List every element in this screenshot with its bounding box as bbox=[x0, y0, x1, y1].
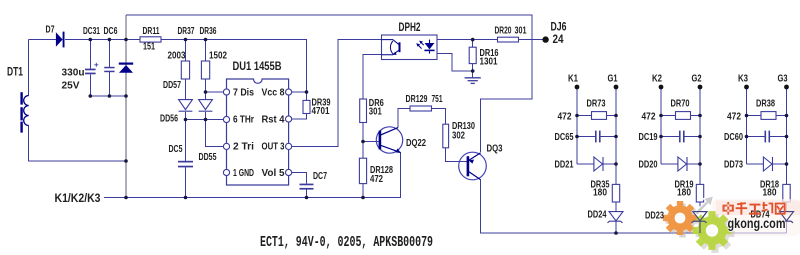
wire pin7 row bbox=[206, 91, 224, 93]
zener diode DD23 bbox=[692, 212, 708, 223]
transistor Q DQ3 bbox=[459, 152, 487, 180]
node dot THr right bbox=[204, 118, 208, 122]
wire DR39 drop to Rst bbox=[306, 92, 308, 100]
svg-text:302: 302 bbox=[452, 130, 465, 141]
wire cap row 1 bbox=[577, 136, 596, 138]
wire main rail right of DR11 to chip vcc drop bbox=[161, 40, 307, 93]
svg-text:2003: 2003 bbox=[168, 50, 186, 61]
watermark green gear shadow bbox=[696, 214, 735, 253]
zener diode on x=126 net bbox=[119, 63, 133, 73]
svg-text:Vol 5: Vol 5 bbox=[262, 168, 285, 179]
wire K2 rail bbox=[660, 89, 662, 164]
node dot DC6 bottom bbox=[108, 94, 112, 98]
wire opto emitter to DR6 bbox=[363, 55, 382, 99]
pin 6 circle bbox=[223, 116, 229, 122]
svg-text:K2: K2 bbox=[652, 74, 662, 85]
resistor DR16 bbox=[469, 47, 476, 63]
diode DD21 bbox=[594, 157, 603, 171]
svg-text:6 THr: 6 THr bbox=[233, 114, 254, 125]
svg-text:4701: 4701 bbox=[312, 106, 330, 117]
svg-text:gkong.com: gkong.com bbox=[728, 216, 786, 231]
resistor DR70 bbox=[676, 112, 691, 120]
wire main rail left bbox=[29, 39, 57, 41]
svg-text:751: 751 bbox=[432, 94, 443, 105]
wire resistor row 1 bbox=[577, 115, 592, 117]
svg-text:DC5: DC5 bbox=[169, 144, 183, 155]
svg-text:Vcc 8: Vcc 8 bbox=[262, 87, 285, 98]
node dot G3 diode row bbox=[785, 162, 789, 166]
node dot K rail zener bbox=[124, 196, 128, 200]
resistor DR130 bbox=[443, 124, 449, 148]
capacitor DC31 electrolytic bbox=[85, 63, 98, 74]
wire DR36 column bbox=[205, 40, 207, 62]
capacitor DC6 bbox=[104, 67, 114, 72]
svg-text:Rst 4: Rst 4 bbox=[262, 114, 285, 125]
diode DD73 bbox=[763, 157, 772, 171]
capacitor DC5 bbox=[178, 161, 193, 168]
svg-text:472: 472 bbox=[642, 112, 656, 123]
node dot DC7 bottom bbox=[305, 196, 309, 200]
wire K1 rail bbox=[576, 89, 578, 164]
svg-text:DQ3: DQ3 bbox=[487, 144, 503, 155]
capacitor DC65 bbox=[595, 131, 601, 143]
zener diode DD23 overlay bbox=[692, 212, 708, 233]
svg-text:330u: 330u bbox=[62, 68, 85, 79]
resistor DR39 bbox=[303, 100, 310, 113]
node dot G1 cap row bbox=[614, 135, 618, 139]
resistor DR128 bbox=[359, 158, 366, 183]
wire G1 rail bbox=[615, 89, 617, 184]
wire DC6 column bbox=[108, 40, 110, 67]
node dot G1 diode row bbox=[614, 162, 618, 166]
svg-text:DR70: DR70 bbox=[671, 99, 690, 110]
svg-text:472: 472 bbox=[370, 174, 383, 185]
node dot DR16 bottom bbox=[471, 69, 475, 73]
svg-text:K1: K1 bbox=[568, 74, 578, 85]
resistor DR36 bbox=[201, 61, 209, 79]
wire DR6 to base junction bbox=[362, 123, 364, 142]
resistor DR73 bbox=[592, 112, 607, 120]
svg-text:ECT1, 94V-0, 0205, APKSB00079: ECT1, 94V-0, 0205, APKSB00079 bbox=[260, 235, 433, 251]
optocoupler phototransistor bbox=[382, 40, 400, 55]
svg-text:DU1 1455B: DU1 1455B bbox=[233, 59, 282, 73]
wire opto LED anode to DJ6 bbox=[437, 39, 543, 41]
node dot G1 resistor row bbox=[614, 114, 618, 118]
node dot G2 resistor row bbox=[698, 114, 702, 118]
wire bottom rail K1/K2/K3 bbox=[104, 153, 401, 198]
node dot DR128 bottom bbox=[361, 196, 365, 200]
svg-text:301: 301 bbox=[515, 25, 527, 36]
diode DD55 right column bbox=[199, 100, 213, 112]
node dot G3 resistor row bbox=[785, 114, 789, 118]
node K1 column and G1 column network bbox=[577, 89, 616, 233]
svg-text:1 GND: 1 GND bbox=[233, 168, 254, 179]
node dot DR36 top bbox=[204, 38, 208, 42]
node dot DC6 top bbox=[108, 38, 112, 42]
node K3 column and G3 column network bbox=[747, 89, 787, 233]
wire G2 to bottom bbox=[699, 202, 701, 211]
wire DQ22 collector up to DR129 bbox=[398, 109, 410, 128]
wire G3 to bottom bbox=[786, 202, 788, 211]
wire DC31 column bbox=[89, 40, 91, 69]
pin 8 circle bbox=[286, 89, 292, 95]
node dot zener rail cross bbox=[124, 38, 128, 42]
optocoupler light arrows bbox=[416, 41, 424, 49]
wire G2 rail bbox=[699, 89, 701, 184]
node dot transformer return bbox=[124, 159, 128, 163]
diode D7 bbox=[56, 32, 65, 48]
resistor DR19 bbox=[696, 184, 703, 202]
wire cap row 2 bbox=[661, 136, 680, 138]
node dot K1 cap row bbox=[575, 135, 579, 139]
svg-text:G1: G1 bbox=[608, 74, 618, 85]
terminal K2 bbox=[659, 85, 664, 90]
zener diode DD74 overlay bbox=[778, 212, 794, 223]
svg-text:DD55: DD55 bbox=[199, 152, 217, 163]
wire diode row 2 bbox=[661, 163, 678, 165]
wire Tri link bbox=[206, 120, 224, 147]
optocoupler LED bbox=[424, 40, 434, 54]
svg-text:K1/K2/K3: K1/K2/K3 bbox=[55, 191, 101, 205]
svg-text:DD24: DD24 bbox=[588, 210, 607, 221]
svg-text:DD56: DD56 bbox=[160, 114, 178, 125]
svg-text:DD23: DD23 bbox=[645, 210, 664, 221]
resistor DR35 bbox=[612, 184, 619, 202]
node dot K2 resistor row bbox=[659, 114, 663, 118]
svg-text:DR36: DR36 bbox=[200, 26, 217, 37]
terminal DJ6 bbox=[542, 36, 548, 42]
svg-text:301: 301 bbox=[369, 106, 382, 117]
svg-text:DR129: DR129 bbox=[406, 94, 428, 105]
watermark chinese title 中华工控网 bbox=[723, 202, 786, 215]
wire G1 to bottom bbox=[615, 202, 617, 211]
wire G3 rail bbox=[786, 89, 788, 184]
svg-text:151: 151 bbox=[143, 42, 155, 53]
svg-text:472: 472 bbox=[558, 112, 572, 123]
zener diode DD24 bbox=[608, 212, 624, 223]
capacitor DC7 bbox=[300, 184, 314, 190]
svg-text:DD73: DD73 bbox=[724, 160, 743, 171]
svg-text:DC19: DC19 bbox=[639, 132, 658, 143]
resistor DR11 bbox=[140, 37, 161, 42]
svg-text:DR73: DR73 bbox=[587, 99, 606, 110]
node dot K3 resistor row bbox=[745, 114, 749, 118]
wire cap bottom link bbox=[90, 95, 126, 97]
wire gray vertical net at x=126 bbox=[125, 15, 127, 198]
watermark silver arrow bbox=[694, 196, 713, 216]
wire DR129 to DR130 bbox=[432, 109, 446, 125]
wire DR16 stems bbox=[472, 40, 474, 48]
watermark orange gear bbox=[663, 201, 697, 235]
svg-text:K3: K3 bbox=[738, 74, 748, 85]
svg-text:OUT 3: OUT 3 bbox=[262, 141, 285, 152]
node dot pin7 net bbox=[204, 90, 208, 94]
svg-text:7 Dis: 7 Dis bbox=[233, 87, 254, 98]
wire diode row 3 bbox=[747, 163, 764, 165]
svg-text:DR38: DR38 bbox=[756, 99, 775, 110]
diode DD20 bbox=[678, 157, 687, 171]
zener diode DD74 bbox=[778, 212, 794, 223]
wire top rail bbox=[126, 15, 532, 152]
resistor DR37 bbox=[181, 61, 189, 79]
watermark backdrop bbox=[712, 199, 800, 236]
pin 5 circle bbox=[286, 169, 292, 175]
node dot DC31 bottom bbox=[89, 94, 93, 98]
svg-text:DD57: DD57 bbox=[163, 80, 181, 91]
node dot DC5 bottom bbox=[184, 196, 188, 200]
terminal G2 bbox=[698, 85, 703, 90]
node dot DR37 top bbox=[184, 38, 188, 42]
svg-text:DD20: DD20 bbox=[639, 160, 658, 171]
svg-text:180: 180 bbox=[763, 187, 777, 198]
terminal G3 bbox=[784, 85, 789, 90]
svg-text:DR20: DR20 bbox=[495, 25, 512, 36]
resistor DR20 bbox=[498, 37, 519, 42]
capacitor DC19 bbox=[679, 131, 685, 143]
node dot DC31 top bbox=[89, 38, 93, 42]
node dot G3 cap row bbox=[785, 135, 789, 139]
node dot DQ22 base bbox=[361, 140, 365, 144]
node dot DR16 top bbox=[471, 38, 475, 42]
terminal K3 bbox=[744, 85, 749, 90]
wire resistor row 2 bbox=[661, 115, 676, 117]
terminal G1 bbox=[614, 85, 619, 90]
wire DQ3 emitter down to bottom right rail bbox=[481, 180, 787, 233]
wire DQ22 emitter down bbox=[400, 153, 402, 198]
svg-text:DC6: DC6 bbox=[104, 26, 118, 37]
resistor DR6 bbox=[360, 99, 367, 123]
resistor DR38 bbox=[761, 112, 776, 120]
transformer DT1 bbox=[20, 92, 28, 132]
svg-text:DC65: DC65 bbox=[555, 132, 574, 143]
svg-text:G3: G3 bbox=[778, 74, 788, 85]
wire DR128 column bbox=[362, 142, 364, 159]
svg-text:24: 24 bbox=[553, 32, 564, 46]
svg-text:G2: G2 bbox=[692, 74, 702, 85]
diode DD57 bbox=[179, 100, 193, 112]
svg-text:DQ22: DQ22 bbox=[406, 138, 426, 149]
node K2 column and G2 column network bbox=[661, 89, 700, 233]
node dot Vcc junction bbox=[305, 90, 309, 94]
watermark orange gear shadow bbox=[666, 204, 700, 238]
ground bbox=[465, 78, 481, 84]
terminal K1 bbox=[575, 85, 580, 90]
svg-text:180: 180 bbox=[677, 187, 691, 198]
wire DC5 column bbox=[185, 120, 187, 161]
svg-text:DT1: DT1 bbox=[7, 65, 23, 79]
wire K3 rail bbox=[746, 89, 748, 164]
svg-text:DPH2: DPH2 bbox=[399, 20, 421, 34]
svg-text:1502: 1502 bbox=[209, 50, 227, 61]
wire opto LED cathode to ground node bbox=[437, 54, 473, 71]
svg-text:2 Tri: 2 Tri bbox=[233, 141, 254, 152]
wire diode row 1 bbox=[577, 163, 594, 165]
svg-text:DR11: DR11 bbox=[143, 26, 160, 37]
svg-text:DC7: DC7 bbox=[313, 171, 327, 182]
svg-text:25V: 25V bbox=[62, 81, 80, 92]
svg-text:DC60: DC60 bbox=[724, 132, 743, 143]
svg-text:D7: D7 bbox=[46, 25, 55, 36]
node dot G2 cap row bbox=[698, 135, 702, 139]
node dot K2 cap row bbox=[659, 135, 663, 139]
node dot K1 resistor row bbox=[575, 114, 579, 118]
wire DR37 column bbox=[185, 40, 187, 62]
node dot G2 diode row bbox=[698, 162, 702, 166]
wire Vol5 to DC7 bbox=[292, 173, 307, 184]
svg-text:180: 180 bbox=[593, 187, 607, 198]
pin 1 circle bbox=[223, 169, 229, 175]
pin 2 circle bbox=[223, 143, 229, 149]
wire transformer bottom bbox=[29, 126, 127, 162]
resistor DR18 bbox=[783, 184, 790, 202]
pin 3 circle bbox=[286, 143, 292, 149]
optocoupler DPH2 box bbox=[382, 35, 438, 60]
capacitor DC60 bbox=[765, 131, 771, 143]
node dot K3 cap row bbox=[745, 135, 749, 139]
resistor DR129 bbox=[410, 106, 432, 111]
watermark green gear bbox=[693, 211, 732, 250]
pin 7 circle bbox=[223, 89, 229, 95]
svg-text:1301: 1301 bbox=[480, 57, 498, 68]
svg-text:DR37: DR37 bbox=[178, 26, 195, 37]
svg-text:472: 472 bbox=[727, 112, 741, 123]
op-amp U1 chip DU1 1455B body bbox=[227, 79, 289, 185]
wire OUT3 up to optocoupler bbox=[292, 40, 382, 147]
transistor Q DQ22 bbox=[376, 127, 402, 153]
wire main rail middle bbox=[65, 39, 140, 41]
node dot zener bottom link bbox=[124, 94, 128, 98]
wire base junction to DQ22 bbox=[363, 141, 379, 143]
node dot G1 bottom bbox=[614, 231, 618, 235]
wire cap row 3 bbox=[747, 136, 766, 138]
svg-text:DD21: DD21 bbox=[555, 160, 574, 171]
node dot G2 bottom bbox=[698, 231, 702, 235]
pin 4 circle bbox=[286, 116, 292, 122]
wire left edge down to transformer bbox=[28, 40, 30, 96]
wire THr row to pin6 bbox=[186, 119, 224, 121]
svg-text:DC31: DC31 bbox=[83, 26, 100, 37]
wire resistor row 3 bbox=[747, 115, 762, 117]
wire DR130 to DQ3 base bbox=[446, 148, 468, 162]
node dot THr left bbox=[184, 118, 188, 122]
